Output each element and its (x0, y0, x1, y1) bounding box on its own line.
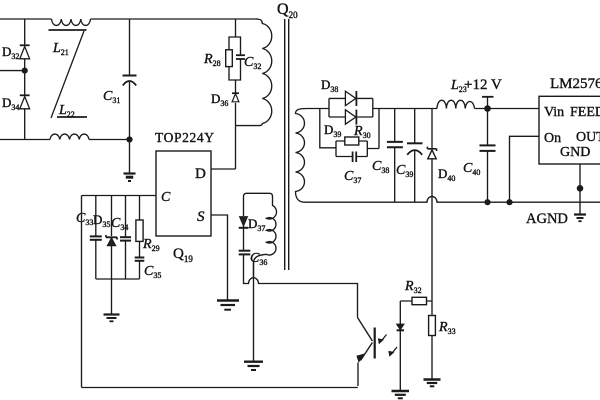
wire D35 ground drop (111, 279, 113, 314)
svg-text:TOP224Y: TOP224Y (155, 130, 214, 145)
wire secondary ground rail with hop (305, 196, 600, 202)
capacitor C37 (344, 152, 361, 186)
svg-text:R28: R28 (203, 52, 221, 68)
optocoupler transistor (356, 318, 374, 387)
svg-text:LM2576: LM2576 (550, 76, 600, 92)
svg-text:FEED: FEED (570, 105, 600, 120)
ground AGND (526, 211, 586, 227)
zener D40 (427, 109, 455, 302)
svg-text:S: S (197, 209, 205, 225)
svg-text:C32: C32 (244, 55, 261, 71)
choke diagonal (51, 31, 84, 118)
svg-text:D39: D39 (324, 122, 341, 139)
wire aux ground drop (253, 263, 255, 361)
resistor R30 (345, 124, 371, 145)
ground below R33 (424, 380, 441, 387)
capacitor C31 (103, 19, 137, 140)
snubber loop R28 C32 (229, 37, 241, 80)
svg-text:D40: D40 (438, 166, 455, 183)
svg-text:D36: D36 (211, 91, 228, 108)
transformer secondary winding (296, 109, 308, 203)
diode D36 (211, 91, 239, 108)
svg-text:AGND: AGND (526, 211, 568, 227)
wire drain vertical (235, 103, 237, 169)
svg-text:C37: C37 (344, 169, 361, 185)
ground below aux winding (244, 362, 263, 370)
svg-text:Q20: Q20 (277, 1, 298, 20)
node C31 bottom junction (126, 136, 132, 142)
diode D37 (239, 216, 266, 250)
svg-text:Vin: Vin (544, 105, 564, 120)
svg-text:R29: R29 (142, 237, 160, 253)
transformer aux winding (254, 197, 277, 279)
wire mid input stub (0, 70, 25, 72)
svg-text:D35: D35 (93, 212, 110, 229)
capacitor C38 (372, 109, 403, 203)
wire main secondary rail (307, 108, 539, 110)
svg-text:C: C (161, 190, 171, 205)
ground below C31 (124, 140, 136, 182)
svg-text:C33: C33 (76, 211, 93, 227)
wire top input rail (0, 18, 258, 20)
wire snubber top stub (235, 19, 237, 37)
wire control bottom bus (96, 278, 140, 280)
svg-text:D32: D32 (2, 44, 19, 61)
svg-text:L21: L21 (52, 41, 69, 57)
wire S pin (211, 215, 228, 300)
wire GND pin (579, 164, 581, 214)
svg-text:C40: C40 (463, 161, 480, 177)
capacitor C32 (236, 55, 261, 71)
wire bottom feedback rail (82, 387, 358, 389)
capacitor C39 (396, 109, 423, 203)
svg-text:R32: R32 (404, 279, 422, 295)
svg-text:C39: C39 (396, 163, 413, 179)
svg-text:D: D (195, 166, 206, 182)
inductor L23 (437, 78, 475, 109)
node L23 output junction (484, 105, 491, 112)
capacitor C40 (463, 109, 496, 203)
+12V tap (464, 77, 502, 109)
ground below LED (392, 391, 410, 398)
diode D32 (2, 44, 30, 61)
svg-text:D37: D37 (248, 216, 265, 233)
IC TOP224Y box (155, 130, 214, 236)
svg-text:L22: L22 (58, 103, 75, 119)
resistor R29 (136, 196, 160, 258)
wire primary bottom (236, 125, 260, 127)
svg-text:C35: C35 (144, 264, 161, 280)
resistor R32 (400, 279, 432, 305)
wire C36 to optocoupler collector with hop (244, 254, 358, 317)
wire D pin (211, 168, 236, 170)
svg-text:C38: C38 (372, 159, 389, 175)
svg-text:On: On (544, 131, 561, 146)
capacitor C36 (239, 251, 268, 267)
node On ground junction (506, 199, 512, 205)
capacitor C33 (76, 196, 102, 280)
node GND pin junction (577, 185, 584, 192)
resistor R33 (429, 301, 456, 379)
svg-text:D38: D38 (321, 77, 338, 94)
inductor L22 (50, 103, 89, 140)
svg-text:R33: R33 (438, 320, 456, 336)
svg-text:GND: GND (560, 145, 590, 160)
label Q20 (277, 1, 298, 20)
choke core bar top (49, 29, 87, 31)
label Q19 (173, 246, 193, 264)
resistor R28 (203, 50, 232, 68)
wire aux top arch (244, 193, 273, 216)
svg-text:Q19: Q19 (173, 246, 193, 264)
wire feedback left drop (81, 196, 83, 388)
wire snubber to D36 (235, 80, 237, 93)
svg-text:R30: R30 (353, 124, 371, 140)
wire C pin bus (82, 195, 157, 197)
inductor L21 (52, 19, 91, 57)
snubber loop R30 C37 (320, 109, 379, 157)
ground S pin (217, 301, 239, 310)
svg-text:C31: C31 (103, 89, 120, 105)
transformer core (285, 19, 289, 270)
diode D34 (2, 95, 30, 112)
IC LM2576 box (539, 76, 600, 164)
ground below D35 (104, 315, 120, 322)
choke core bar bottom (57, 116, 87, 118)
node input diode junction (22, 68, 28, 74)
zener D35 (93, 196, 117, 280)
svg-text:OUT: OUT (576, 130, 600, 145)
wire bottom input rail (0, 139, 130, 141)
capacitor C35 (135, 258, 162, 281)
node C40 ground junction (484, 199, 490, 205)
wire input diode column (24, 19, 26, 140)
capacitor C34 (111, 196, 131, 280)
optocoupler light arrows (378, 335, 397, 357)
wire On pin (510, 136, 540, 202)
LED optocoupler diode (397, 301, 404, 391)
svg-text:C36: C36 (250, 251, 267, 267)
transformer primary winding (256, 19, 272, 126)
svg-text:+12 V: +12 V (464, 77, 502, 93)
svg-text:D34: D34 (2, 95, 19, 112)
diode block D38 D39 (321, 77, 373, 139)
